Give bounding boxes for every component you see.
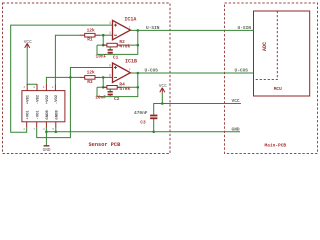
junction node rail2 right	[137, 86, 140, 89]
junction node output1	[137, 29, 140, 32]
svg-text:470k: 470k	[119, 86, 130, 92]
wire op-amp1 + input from left rail	[11, 25, 113, 132]
wire sensor pin T4 to R1	[55, 35, 80, 84]
wire sensor pin T3 to R3	[46, 77, 80, 84]
capacitor C2	[95, 91, 120, 102]
svg-text:+VB1: +VB1	[27, 94, 31, 104]
junction node B3 gnd	[45, 131, 48, 134]
junction node C3 gnd	[152, 131, 155, 134]
MCU box U2	[254, 11, 310, 96]
junction node rail1 right	[137, 44, 140, 47]
svg-text:1: 1	[129, 26, 131, 30]
resistor R4	[103, 81, 131, 91]
VCC symbol right	[159, 84, 167, 93]
svg-text:R3: R3	[87, 79, 93, 85]
svg-text:Main-PCB: Main-PCB	[265, 142, 287, 148]
svg-text:6: 6	[109, 73, 111, 77]
junction node B4 gnd	[55, 131, 58, 134]
svg-text:U-COS: U-COS	[235, 68, 249, 74]
svg-text:R1: R1	[87, 37, 93, 43]
svg-text:12k: 12k	[87, 70, 95, 76]
wire sensor pin B3 to gnd rail	[45, 127, 47, 132]
svg-text:Sensor PCB: Sensor PCB	[89, 142, 122, 148]
wire gnd symbol stem	[45, 132, 47, 145]
svg-text:C1: C1	[113, 55, 119, 61]
svg-text:GNDB: GNDB	[55, 110, 59, 120]
top pin stubs	[26, 84, 28, 91]
svg-text:GNDB: GNDB	[46, 110, 50, 120]
svg-text:-VO1: -VO1	[36, 110, 40, 120]
svg-text:10nF: 10nF	[96, 53, 107, 59]
svg-text:VCC: VCC	[232, 98, 240, 104]
wire R1 right to op-amp1 - input	[99, 34, 113, 36]
svg-text:C3: C3	[140, 119, 146, 125]
svg-text:12k: 12k	[87, 27, 95, 33]
svg-text:IC1A: IC1A	[124, 16, 136, 22]
op-amp IC1B	[109, 59, 137, 83]
resistor R2	[103, 39, 131, 49]
svg-text:470nF: 470nF	[134, 110, 148, 116]
VCC symbol left	[24, 40, 32, 48]
junction node on rail1 left	[102, 44, 105, 47]
junction node J1	[102, 34, 105, 37]
svg-text:+VO1: +VO1	[26, 110, 30, 120]
junction node output2	[137, 72, 140, 75]
svg-text:2: 2	[109, 31, 111, 35]
svg-text:ADC: ADC	[262, 42, 268, 51]
wire R3 right to op-amp2 - input	[99, 76, 113, 78]
wire C2 loop	[97, 73, 138, 97]
Sensor PCB dashed frame	[3, 3, 171, 154]
resistor R3	[80, 70, 100, 85]
wire sensor pin B4 to gnd rail	[55, 127, 57, 132]
svg-text:5: 5	[109, 63, 111, 67]
capacitor C3	[134, 110, 157, 125]
wire J1 drop to feedback rail	[102, 35, 104, 45]
wire VCC rail	[154, 104, 241, 115]
junction node J2	[102, 76, 105, 79]
wire U-COS	[130, 72, 253, 74]
wire U-SIN	[130, 29, 253, 31]
wire VCC symbol 2 stem	[161, 93, 163, 104]
svg-text:C2: C2	[114, 96, 120, 102]
bottom pin stubs	[26, 122, 28, 128]
GND symbol	[43, 146, 51, 153]
svg-text:-VO2: -VO2	[55, 94, 59, 104]
sensor IC box	[22, 84, 65, 131]
op-amp IC1A	[109, 16, 136, 39]
svg-text:3: 3	[109, 21, 111, 25]
svg-text:10nF: 10nF	[95, 94, 106, 100]
wire GND rail	[46, 131, 240, 133]
wire C2 leads	[109, 87, 111, 91]
svg-text:U-COS: U-COS	[145, 68, 159, 74]
junction node +in2 tap	[69, 76, 72, 79]
svg-text:MCU: MCU	[274, 87, 282, 92]
wire feedback rail 2	[97, 86, 138, 88]
wire C3 bottom lead to gnd rail	[153, 119, 155, 132]
junction node VCC sym	[161, 102, 164, 105]
capacitor C1	[96, 49, 119, 60]
svg-text:7: 7	[129, 68, 131, 72]
svg-text:-VB2: -VB2	[37, 94, 41, 104]
svg-text:GND: GND	[43, 148, 51, 153]
svg-text:U-SIN: U-SIN	[146, 25, 160, 31]
svg-text:+VO2: +VO2	[46, 94, 50, 104]
wire J2 drop to feedback rail 2	[102, 77, 104, 87]
wire feedback rail 1	[97, 44, 138, 46]
wire sensor pin B2 riser	[37, 77, 71, 137]
wire VCC stem to sensor pins T1 T2	[27, 48, 37, 85]
svg-text:GND: GND	[232, 126, 240, 132]
resistor R1	[80, 27, 100, 42]
svg-text:IC1B: IC1B	[125, 59, 137, 65]
wire C1 leads	[109, 45, 111, 49]
Main PCB dashed frame	[225, 3, 318, 154]
ADC sub-block dashed	[254, 11, 278, 80]
wire op-amp2 + input riser	[70, 68, 112, 78]
wire C1 loop	[97, 30, 138, 54]
svg-text:470k: 470k	[119, 44, 130, 50]
svg-text:U-SIN: U-SIN	[238, 25, 252, 31]
junction node rail2 left	[102, 86, 105, 89]
